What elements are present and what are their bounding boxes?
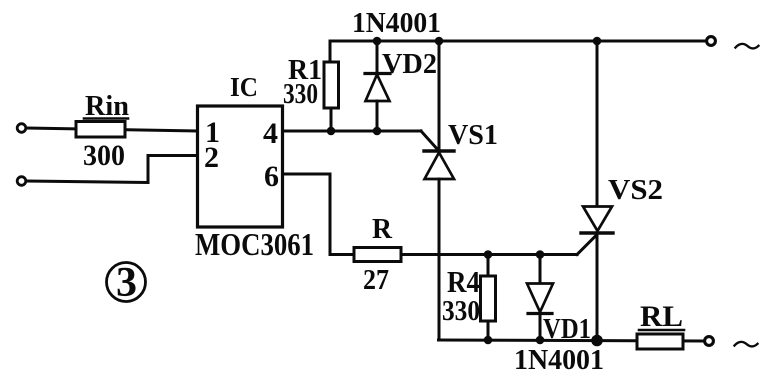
AC tilde bottom (735, 342, 758, 346)
wire input top to IC pin1 (27, 128, 198, 131)
terminal top-right (707, 37, 716, 46)
node dot VD1 bottom (536, 336, 545, 345)
svg-text:VD2: VD2 (382, 48, 437, 80)
resistor R4 (487, 255, 490, 277)
resistor Rin body (76, 122, 125, 138)
wire pin6 (283, 174, 577, 255)
node dot VS1 top (435, 37, 444, 46)
bottom rail wire (439, 340, 705, 341)
underline of RL (639, 329, 684, 332)
underline of Rin (84, 117, 128, 120)
node dot R4 top (484, 250, 493, 259)
node dot VD2 top (373, 37, 382, 46)
svg-text:MOC3061: MOC3061 (195, 226, 314, 262)
svg-text:1N4001: 1N4001 (352, 7, 441, 39)
svg-text:6: 6 (264, 160, 279, 193)
wire gate of VS1 diagonal (421, 131, 439, 151)
node big dot VS2 anode (591, 335, 603, 347)
resistor R1 body (324, 62, 339, 108)
resistor RL body (637, 334, 683, 349)
op-coupler IC box (198, 106, 283, 227)
input terminal top-left (17, 124, 26, 133)
svg-text:330: 330 (283, 79, 318, 110)
svg-text:VS2: VS2 (608, 174, 663, 206)
svg-text:VS1: VS1 (448, 119, 498, 151)
wire input bottom to IC pin2 (27, 156, 198, 183)
diode VD2 (376, 41, 379, 73)
wire pin4 node (283, 130, 421, 133)
node dot VS2 top (593, 37, 602, 46)
AC tilde top (736, 44, 759, 48)
node dot R4 bottom (484, 336, 493, 345)
thyristor VS2 (596, 41, 599, 206)
resistor R body (354, 248, 401, 262)
figure number circled 3 (107, 263, 146, 302)
svg-text:R: R (372, 214, 393, 245)
node dot VD2 bottom (373, 127, 382, 136)
wire gate of VS2 diagonal (577, 236, 596, 255)
svg-text:27: 27 (363, 264, 389, 296)
svg-text:2: 2 (204, 141, 219, 174)
wire R1 bottom (330, 108, 333, 131)
svg-text:3: 3 (116, 260, 137, 306)
diode VD1 (539, 255, 542, 284)
svg-text:4: 4 (263, 117, 278, 150)
node dot VD1 top (536, 250, 545, 259)
terminal bottom-right (705, 337, 714, 346)
svg-text:R4: R4 (447, 264, 480, 299)
top rail wire (330, 41, 706, 62)
svg-text:330: 330 (442, 296, 480, 327)
input terminal bottom-left (17, 177, 26, 186)
svg-text:1N4001: 1N4001 (514, 344, 604, 376)
node dot R1 bottom (327, 127, 336, 136)
svg-text:300: 300 (83, 139, 125, 172)
thyristor VS1 (438, 41, 441, 150)
svg-text:IC: IC (230, 72, 258, 102)
svg-text:RL: RL (640, 300, 683, 333)
